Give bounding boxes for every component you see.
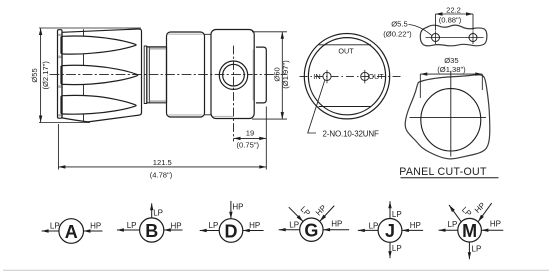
- body shading: [169, 34, 253, 116]
- svg-text:Ø55: Ø55: [30, 68, 39, 82]
- svg-text:HP: HP: [410, 221, 421, 230]
- bracket holes centerline: [426, 37, 484, 39]
- svg-text:HP: HP: [331, 219, 342, 228]
- dimension 22.2: [436, 12, 474, 30]
- svg-text:IN: IN: [313, 72, 320, 81]
- svg-text:LP: LP: [392, 244, 402, 253]
- knob segment lines: [83, 30, 85, 121]
- svg-text:(Ø1.97"): (Ø1.97"): [281, 60, 290, 89]
- SYMBOL M: [439, 203, 504, 259]
- port OUT circle: [361, 72, 369, 80]
- centerline side view: [50, 74, 287, 76]
- bottom separator line: [3, 269, 549, 271]
- port IN circle: [323, 72, 331, 80]
- svg-text:LP: LP: [153, 209, 163, 218]
- svg-text:LP: LP: [472, 245, 482, 254]
- dimension D35: [420, 72, 482, 98]
- svg-text:LP: LP: [127, 221, 137, 230]
- knob body: [62, 29, 142, 122]
- svg-text:LP: LP: [448, 220, 458, 229]
- knob flange: [58, 30, 63, 119]
- svg-text:121.5: 121.5: [153, 158, 172, 167]
- panel circle: [421, 89, 481, 151]
- svg-text:Ø5.5: Ø5.5: [391, 20, 407, 29]
- svg-text:B: B: [145, 221, 158, 241]
- svg-text:(Ø1.38"): (Ø1.38"): [437, 65, 466, 74]
- svg-text:19: 19: [246, 128, 254, 137]
- svg-text:(4.78"): (4.78"): [150, 171, 173, 180]
- neck threaded section: [144, 46, 166, 104]
- svg-text:LP: LP: [392, 210, 402, 219]
- svg-text:A: A: [65, 222, 78, 242]
- svg-text:HP: HP: [490, 219, 501, 228]
- SYMBOL A: [42, 219, 103, 244]
- leader 10-32UNF: [308, 80, 325, 133]
- SYMBOL G: [279, 206, 349, 242]
- svg-text:G: G: [304, 221, 318, 241]
- front inner circle: [308, 38, 385, 115]
- dimension D55: [39, 28, 141, 123]
- SYMBOL D: [200, 201, 264, 242]
- PANEL CUT-OUT: [405, 75, 490, 159]
- svg-text:LP: LP: [289, 221, 299, 230]
- port outer circle: [219, 61, 247, 89]
- svg-text:PANEL CUT-OUT: PANEL CUT-OUT: [399, 166, 487, 178]
- bracket hole right: [469, 34, 477, 42]
- svg-text:22.2: 22.2: [446, 5, 461, 14]
- svg-text:Ø35: Ø35: [444, 56, 458, 65]
- svg-text:HP: HP: [232, 203, 243, 212]
- svg-text:OUT: OUT: [368, 72, 384, 81]
- svg-text:(Ø0.22"): (Ø0.22"): [383, 29, 412, 38]
- mid body: [167, 32, 205, 117]
- port vertical centerline: [233, 46, 235, 141]
- svg-text:D: D: [225, 221, 238, 241]
- SYMBOL B: [117, 203, 183, 242]
- port inner circle: [223, 64, 245, 86]
- svg-text:Ø50: Ø50: [272, 67, 281, 81]
- FRONT VIEW: [300, 33, 401, 133]
- svg-text:2-NO.10-32UNF: 2-NO.10-32UNF: [323, 130, 380, 139]
- front bottom chord: [319, 106, 371, 108]
- svg-text:HP: HP: [170, 222, 181, 231]
- svg-text:(Ø2.17"): (Ø2.17"): [41, 61, 50, 90]
- svg-text:(0.88"): (0.88"): [439, 16, 462, 25]
- svg-text:LP: LP: [50, 221, 60, 230]
- panel blob outline: [405, 75, 490, 159]
- bracket blob outline: [420, 25, 487, 46]
- dimension 121.5: [58, 107, 266, 170]
- main body: [211, 30, 254, 119]
- MOUNTING BRACKET DETAIL: [420, 25, 487, 46]
- front top chord: [319, 44, 371, 46]
- panel cut-out underline: [401, 177, 499, 179]
- end cap: [256, 47, 266, 103]
- front outer circle: [304, 33, 389, 118]
- svg-text:OUT: OUT: [338, 47, 354, 56]
- SYMBOL J: [358, 201, 423, 258]
- front centerline: [300, 75, 401, 77]
- svg-text:M: M: [462, 221, 477, 241]
- svg-text:J: J: [385, 221, 395, 241]
- dimension 19: [234, 137, 267, 140]
- knob groove middle: [61, 65, 138, 84]
- dimension D50: [252, 32, 287, 119]
- knob groove top: [61, 36, 136, 54]
- leader D5.5: [409, 25, 432, 36]
- knob groove bottom: [61, 95, 136, 114]
- svg-text:LP: LP: [209, 221, 219, 230]
- panel crosshair: [410, 116, 487, 118]
- svg-text:LP: LP: [369, 221, 379, 230]
- svg-text:(0.75"): (0.75"): [237, 141, 260, 150]
- step between bodies: [205, 34, 212, 115]
- svg-text:HP: HP: [90, 221, 101, 230]
- bracket hole left: [432, 34, 440, 42]
- svg-text:HP: HP: [249, 221, 260, 230]
